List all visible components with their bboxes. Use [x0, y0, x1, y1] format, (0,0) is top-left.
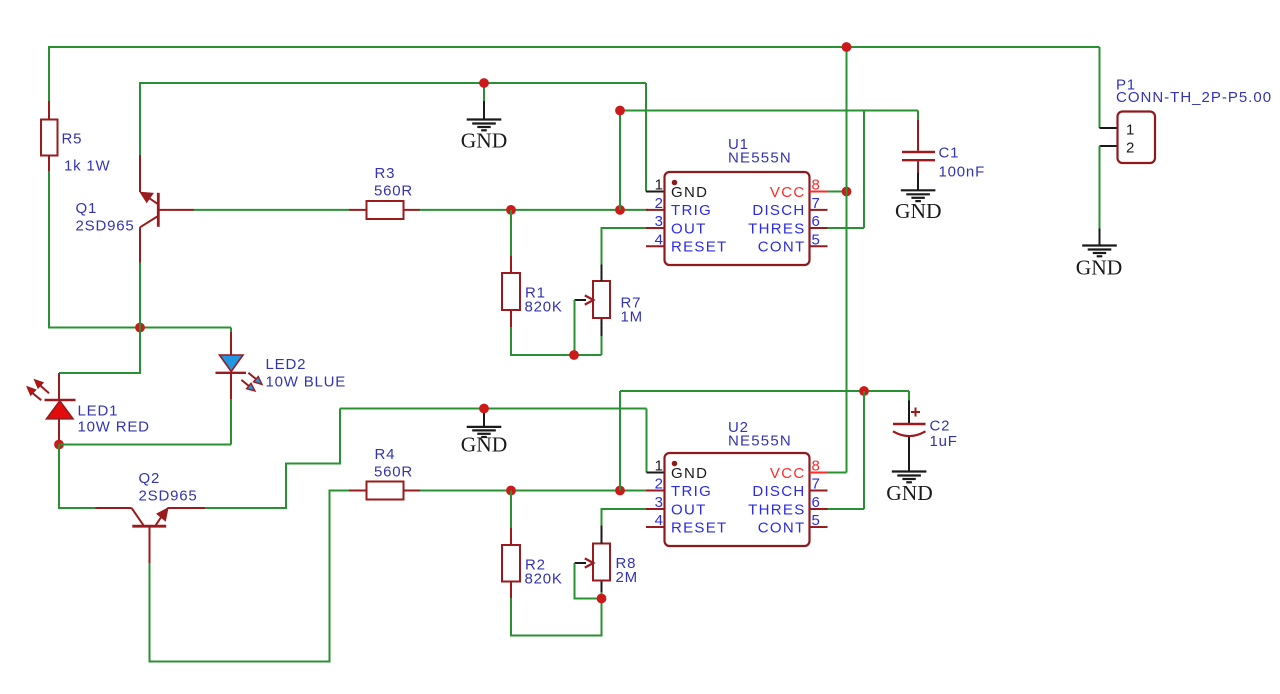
svg-text:5: 5 [812, 512, 820, 529]
svg-text:2M: 2M [616, 569, 638, 586]
junction GND1 rail [479, 78, 489, 88]
wire C2 net horizontal [620, 390, 909, 392]
wire GND rail 1 (y=83) [140, 83, 646, 84]
svg-text:2: 2 [655, 476, 663, 493]
junction R4/R2 node [506, 486, 516, 496]
wire LED bottom horizontal [59, 444, 231, 446]
wire Q2 emitter to GND rail2 steps [205, 409, 340, 509]
ground GND1 [461, 83, 508, 153]
ground P1 GND [1076, 229, 1123, 280]
capacitor C1 [902, 111, 935, 174]
svg-text:C1: C1 [939, 145, 960, 162]
wire R1 top [510, 210, 512, 256]
pin 3 stub U1 [646, 227, 665, 229]
svg-text:TRIG: TRIG [671, 202, 712, 219]
ground GND2 [461, 409, 508, 457]
wire R7 wiper down [574, 300, 576, 355]
wire top supply rail [49, 46, 1100, 48]
wire TRIG/THRES top horizontal to C1 [620, 110, 918, 112]
svg-text:10W BLUE: 10W BLUE [266, 374, 347, 391]
LED2 emission arrows [241, 373, 262, 391]
LED LED1 [45, 373, 76, 445]
svg-text:CONT: CONT [758, 520, 806, 537]
svg-text:7: 7 [812, 476, 820, 493]
junction TRIG U2 column node [615, 486, 625, 496]
svg-text:NE555N: NE555N [728, 433, 792, 450]
LED1 emission arrows [27, 380, 49, 400]
resistor R5 [41, 101, 58, 171]
svg-text:LED2: LED2 [266, 356, 307, 373]
junction GND2 rail [479, 404, 489, 414]
wire U1 pin1 GND drop [645, 83, 647, 192]
wire LED1 top jog [59, 328, 140, 374]
wire TRIG column vertical [619, 111, 621, 210]
pin 4 stub U2 [646, 526, 665, 528]
pin 4 stub U1 [646, 245, 665, 247]
junction LED row [135, 323, 145, 333]
wire pin1 stub U2 (black) [647, 472, 665, 474]
pin 2 stub U2 [646, 490, 665, 492]
svg-text:4: 4 [655, 232, 663, 249]
svg-text:10W RED: 10W RED [78, 419, 150, 436]
svg-text:1k 1W: 1k 1W [64, 158, 111, 175]
wire Q1 emitter drop [139, 83, 141, 155]
junction R8 bottom node [597, 594, 607, 604]
potentiometer R7 [575, 265, 611, 337]
wire Q1 collector down [139, 263, 141, 328]
svg-text:3: 3 [655, 213, 663, 230]
wire R4 to U2 TRIG [420, 490, 648, 492]
pin 3 stub U2 [646, 508, 665, 510]
svg-text:7: 7 [812, 195, 820, 212]
pin 8 stub U1 (VCC red) [810, 191, 828, 193]
svg-text:GND: GND [895, 199, 942, 223]
svg-text:2: 2 [1126, 140, 1134, 157]
wire R2 top [510, 491, 512, 529]
pin 6 stub U2 [810, 508, 828, 510]
svg-text:CONN-TH_2P-P5.00: CONN-TH_2P-P5.00 [1116, 89, 1272, 106]
wire THRES U2 horizontal [828, 508, 865, 510]
wire LED row horizontal [49, 327, 231, 329]
junction TRIG column node [615, 205, 625, 215]
wire THRES U2 vertical [863, 391, 865, 509]
svg-text:3: 3 [655, 494, 663, 511]
svg-text:100nF: 100nF [939, 164, 986, 181]
svg-text:VCC: VCC [770, 465, 806, 482]
wire R3 to U1 TRIG [420, 209, 648, 211]
svg-text:R3: R3 [375, 165, 396, 182]
wire R7 top to OUT U1 [602, 228, 649, 265]
svg-text:1uF: 1uF [930, 433, 958, 450]
svg-text:1: 1 [1126, 122, 1134, 139]
ground C2 GND [886, 472, 933, 506]
resistor R4 [349, 482, 420, 500]
wire top rail to P1 pin1 [1099, 47, 1101, 128]
junction TRIG top corner [615, 106, 625, 116]
svg-text:OUT: OUT [671, 501, 707, 518]
wire R8 wiper down [575, 563, 602, 599]
wire U2 pin1 GND drop [646, 409, 648, 473]
pin 5 stub U1 [810, 245, 828, 247]
resistor R1 [502, 256, 520, 327]
svg-text:GND: GND [671, 184, 708, 201]
wire pin1 stub U1 (black) [646, 191, 665, 193]
pin 2 stub U1 [646, 209, 665, 211]
ground C1 GND [895, 173, 942, 223]
svg-text:GND: GND [1076, 256, 1123, 280]
svg-text:THRES: THRES [748, 220, 805, 237]
svg-text:2SD965: 2SD965 [139, 488, 198, 505]
svg-text:560R: 560R [374, 183, 413, 200]
pin 5 stub U2 [810, 526, 828, 528]
resistor R3 [349, 201, 420, 219]
svg-text:8: 8 [812, 177, 820, 194]
junction THRES U2 node [859, 386, 869, 396]
svg-text:LED1: LED1 [78, 403, 119, 420]
op-amp U1 NE555N box [665, 172, 810, 265]
svg-text:DISCH: DISCH [752, 202, 805, 219]
resistor R2 [502, 528, 520, 598]
capacitor C2 [893, 391, 926, 472]
svg-text:1: 1 [655, 177, 663, 194]
svg-text:GND: GND [461, 433, 508, 457]
junction LED1 bottom [54, 440, 64, 450]
wire left rail lower (R5 to LED row) [48, 171, 50, 329]
transistor Q2 [96, 508, 206, 563]
wire supply column vertical [846, 47, 848, 473]
pin 6 stub U1 [810, 227, 828, 229]
wire Q1 base to R3 [194, 209, 349, 211]
svg-text:1: 1 [655, 458, 663, 475]
svg-text:6: 6 [812, 494, 820, 511]
svg-text:CONT: CONT [758, 239, 806, 256]
wire P1 pin2 to GND [1099, 146, 1101, 229]
wire LED1 bottom to Q2 collector [59, 445, 96, 509]
svg-text:1M: 1M [621, 309, 643, 326]
svg-text:R4: R4 [375, 446, 396, 463]
LED LED2 [216, 328, 247, 445]
svg-text:Q2: Q2 [139, 470, 161, 487]
pin 7 stub U1 [810, 209, 828, 211]
svg-text:2: 2 [655, 195, 663, 212]
wire P1 pin2 stub [1100, 145, 1118, 147]
svg-text:GND: GND [671, 465, 708, 482]
svg-text:R5: R5 [62, 131, 83, 148]
pin 7 stub U2 [810, 490, 828, 492]
wire R1 bottom [511, 327, 602, 355]
junction U1 VCC [842, 187, 852, 197]
svg-text:820K: 820K [525, 571, 563, 588]
svg-text:THRES: THRES [748, 501, 805, 518]
wire GND rail 2 [340, 408, 647, 410]
junction R7 wiper node [569, 350, 579, 360]
svg-text:DISCH: DISCH [752, 483, 805, 500]
svg-text:6: 6 [812, 213, 820, 230]
wire R7 bottom leg [601, 336, 603, 355]
junction supply top rail [842, 42, 852, 52]
connector P1 [1118, 112, 1156, 164]
svg-text:TRIG: TRIG [671, 483, 712, 500]
svg-text:OUT: OUT [671, 220, 707, 237]
svg-text:5: 5 [812, 232, 820, 249]
wire R2 bottom loop [511, 598, 602, 636]
svg-text:GND: GND [886, 481, 933, 505]
svg-text:C2: C2 [930, 418, 951, 435]
svg-text:820K: 820K [525, 299, 563, 316]
svg-text:GND: GND [461, 129, 508, 153]
wire R8 top to OUT U2 [602, 509, 649, 526]
junction R3/R1 node [506, 205, 516, 215]
wire THRES U1 horizontal [828, 227, 865, 229]
wire P1 pin1 stub [1100, 127, 1118, 129]
svg-text:VCC: VCC [770, 184, 806, 201]
svg-text:560R: 560R [374, 464, 413, 481]
wire U1 VCC to supply column [828, 191, 847, 193]
svg-text:8: 8 [812, 458, 820, 475]
svg-text:Q1: Q1 [76, 200, 98, 217]
svg-text:NE555N: NE555N [728, 150, 792, 167]
wire THRES U1 vertical [863, 111, 865, 229]
pin 8 stub U2 (VCC red) [810, 472, 828, 474]
wire TRIG U2 column vertical [619, 391, 621, 491]
wire Q2 base loop [150, 491, 350, 662]
op-amp U2 NE555N box [665, 453, 810, 546]
transistor Q1 [140, 155, 194, 263]
wire U2 VCC to supply column [828, 472, 847, 474]
svg-text:4: 4 [655, 512, 663, 529]
wire left rail upper (to R5) [48, 46, 50, 101]
svg-text:RESET: RESET [671, 239, 728, 256]
potentiometer R8 [575, 526, 611, 599]
svg-text:2SD965: 2SD965 [76, 218, 135, 235]
svg-text:RESET: RESET [671, 520, 728, 537]
